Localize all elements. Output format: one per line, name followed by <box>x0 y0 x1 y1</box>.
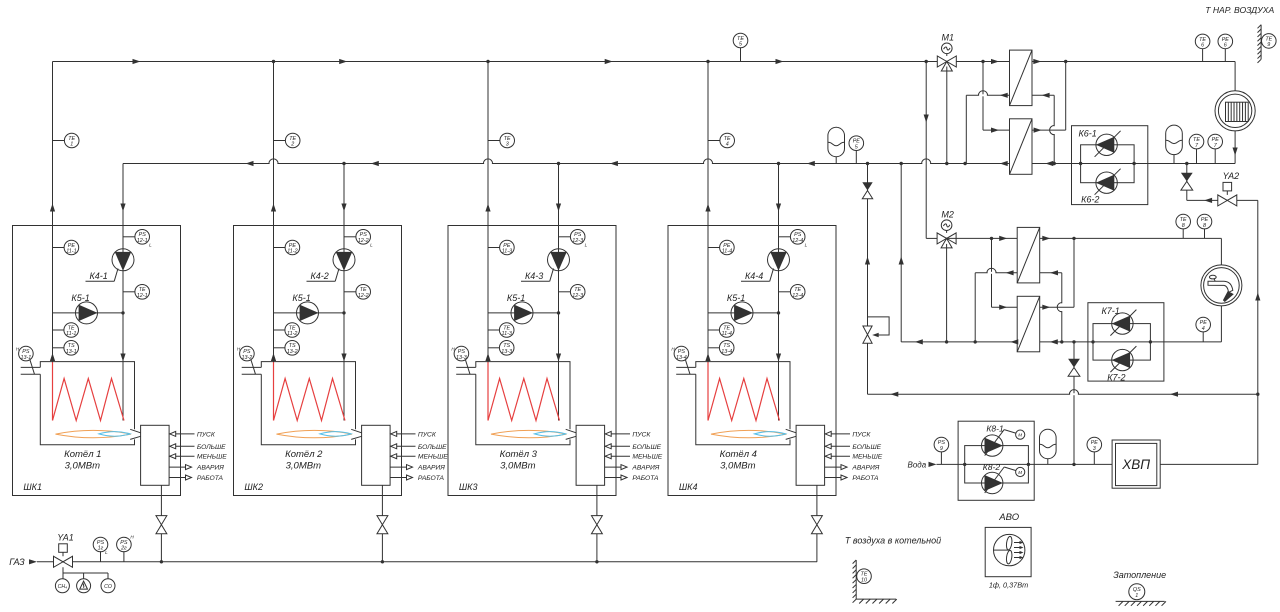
svg-text:L: L <box>805 243 808 248</box>
svg-text:9: 9 <box>940 446 943 452</box>
svg-text:РАБОТА: РАБОТА <box>632 475 659 482</box>
svg-text:М1: М1 <box>942 33 955 43</box>
svg-text:10: 10 <box>861 577 867 583</box>
svg-text:1г: 1г <box>98 546 104 552</box>
svg-text:11-1: 11-1 <box>66 331 76 337</box>
svg-text:Котёл 4: Котёл 4 <box>720 449 757 460</box>
svg-text:Т воздуха в котельной: Т воздуха в котельной <box>845 536 941 546</box>
svg-text:13-1: 13-1 <box>21 355 32 361</box>
svg-text:3,0МВт: 3,0МВт <box>65 460 100 471</box>
svg-text:АВАРИЯ: АВАРИЯ <box>196 465 224 472</box>
svg-text:БОЛЬШЕ: БОЛЬШЕ <box>197 444 226 451</box>
svg-text:АВАРИЯ: АВАРИЯ <box>631 465 659 472</box>
svg-text:2г: 2г <box>120 546 127 552</box>
svg-text:МЕНЬШЕ: МЕНЬШЕ <box>852 454 882 461</box>
svg-text:ПУСК: ПУСК <box>852 431 871 438</box>
svg-text:3,0МВт: 3,0МВт <box>500 460 535 471</box>
svg-text:9: 9 <box>1267 42 1270 48</box>
svg-text:11-1: 11-1 <box>66 249 76 255</box>
svg-text:ШК2: ШК2 <box>244 482 263 492</box>
svg-text:ШК3: ШК3 <box>459 482 478 492</box>
svg-text:К8-1: К8-1 <box>986 423 1004 433</box>
svg-text:Котёл 1: Котёл 1 <box>64 449 101 460</box>
svg-text:РАБОТА: РАБОТА <box>852 475 879 482</box>
svg-text:ПУСК: ПУСК <box>418 431 437 438</box>
svg-text:К8-2: К8-2 <box>983 462 1001 472</box>
svg-text:13-2: 13-2 <box>242 355 253 361</box>
svg-text:3,0МВт: 3,0МВт <box>286 460 321 471</box>
svg-text:К6-1: К6-1 <box>1079 128 1097 138</box>
svg-text:13-3: 13-3 <box>501 349 512 355</box>
svg-text:8: 8 <box>1203 223 1206 229</box>
svg-text:К5-1: К5-1 <box>727 293 745 303</box>
svg-text:6: 6 <box>1201 43 1204 49</box>
svg-text:11-4: 11-4 <box>722 331 732 337</box>
svg-text:12-3: 12-3 <box>572 293 583 299</box>
svg-text:13-1: 13-1 <box>66 349 77 355</box>
svg-text:1: 1 <box>70 142 73 148</box>
svg-text:М: М <box>1018 433 1022 438</box>
svg-text:12-1: 12-1 <box>137 238 148 244</box>
svg-text:К4-4: К4-4 <box>745 271 763 281</box>
svg-text:К6-2: К6-2 <box>1081 194 1099 204</box>
svg-text:12-3: 12-3 <box>572 238 583 244</box>
svg-text:АВАРИЯ: АВАРИЯ <box>417 465 445 472</box>
svg-text:4: 4 <box>726 142 729 148</box>
svg-text:1ф, 0,37Вт: 1ф, 0,37Вт <box>989 581 1028 590</box>
svg-text:3: 3 <box>1093 446 1096 452</box>
svg-text:Котёл 3: Котёл 3 <box>500 449 538 460</box>
svg-text:2: 2 <box>290 142 294 148</box>
svg-text:Котёл 2: Котёл 2 <box>285 449 323 460</box>
svg-text:МЕНЬШЕ: МЕНЬШЕ <box>197 454 227 461</box>
svg-text:YA2: YA2 <box>1223 171 1240 181</box>
svg-text:МЕНЬШЕ: МЕНЬШЕ <box>418 454 448 461</box>
svg-text:МЕНЬШЕ: МЕНЬШЕ <box>632 454 662 461</box>
svg-text:11-4: 11-4 <box>722 249 732 255</box>
svg-text:СО: СО <box>104 584 112 590</box>
svg-text:Т НАР. ВОЗДУХА: Т НАР. ВОЗДУХА <box>1205 5 1274 15</box>
svg-text:12-2: 12-2 <box>358 293 369 299</box>
svg-text:11-2: 11-2 <box>287 331 297 337</box>
svg-text:12-2: 12-2 <box>358 238 369 244</box>
svg-text:ШК4: ШК4 <box>679 482 698 492</box>
svg-text:L: L <box>105 550 108 555</box>
svg-text:L: L <box>370 243 373 248</box>
svg-text:L: L <box>149 243 152 248</box>
svg-text:АВО: АВО <box>998 512 1019 523</box>
svg-text:К7-1: К7-1 <box>1102 306 1120 316</box>
svg-text:К4-3: К4-3 <box>525 271 543 281</box>
svg-text:13-2: 13-2 <box>287 349 298 355</box>
svg-text:4: 4 <box>1202 326 1205 332</box>
svg-text:YA1: YA1 <box>57 532 74 542</box>
svg-text:12-4: 12-4 <box>792 293 803 299</box>
svg-text:11-2: 11-2 <box>287 249 297 255</box>
svg-text:3: 3 <box>506 142 509 148</box>
svg-text:11-3: 11-3 <box>502 331 512 337</box>
svg-text:К5-1: К5-1 <box>292 293 310 303</box>
svg-text:3,0МВт: 3,0МВт <box>720 460 755 471</box>
svg-text:К7-2: К7-2 <box>1107 373 1125 383</box>
svg-text:ХВП: ХВП <box>1121 457 1150 472</box>
svg-text:13-4: 13-4 <box>676 355 687 361</box>
svg-text:12-1: 12-1 <box>137 293 148 299</box>
svg-text:БОЛЬШЕ: БОЛЬШЕ <box>852 444 881 451</box>
svg-text:L: L <box>585 243 588 248</box>
svg-text:РАБОТА: РАБОТА <box>418 475 445 482</box>
svg-text:К5-1: К5-1 <box>71 293 89 303</box>
svg-text:13-3: 13-3 <box>456 355 467 361</box>
svg-text:8: 8 <box>1182 223 1185 229</box>
svg-text:ПУСК: ПУСК <box>197 431 216 438</box>
svg-text:К4-2: К4-2 <box>311 271 329 281</box>
svg-text:6: 6 <box>1224 43 1227 49</box>
svg-text:СН₄: СН₄ <box>58 584 68 590</box>
svg-text:11-3: 11-3 <box>502 249 512 255</box>
svg-text:ШК1: ШК1 <box>23 482 42 492</box>
svg-text:БОЛЬШЕ: БОЛЬШЕ <box>418 444 447 451</box>
svg-text:АВАРИЯ: АВАРИЯ <box>851 465 879 472</box>
svg-text:1: 1 <box>1135 593 1138 599</box>
svg-text:БОЛЬШЕ: БОЛЬШЕ <box>632 444 661 451</box>
svg-text:13-4: 13-4 <box>721 349 732 355</box>
svg-text:М: М <box>1018 470 1022 475</box>
svg-text:РАБОТА: РАБОТА <box>197 475 224 482</box>
svg-text:Затопление: Затопление <box>1113 570 1166 580</box>
svg-text:М2: М2 <box>941 209 954 219</box>
svg-text:ГАЗ: ГАЗ <box>9 557 25 567</box>
svg-text:К4-1: К4-1 <box>90 271 108 281</box>
svg-text:К5-1: К5-1 <box>507 293 525 303</box>
svg-text:12-4: 12-4 <box>792 238 803 244</box>
svg-text:ПУСК: ПУСК <box>632 431 651 438</box>
svg-text:Вода: Вода <box>908 460 927 469</box>
